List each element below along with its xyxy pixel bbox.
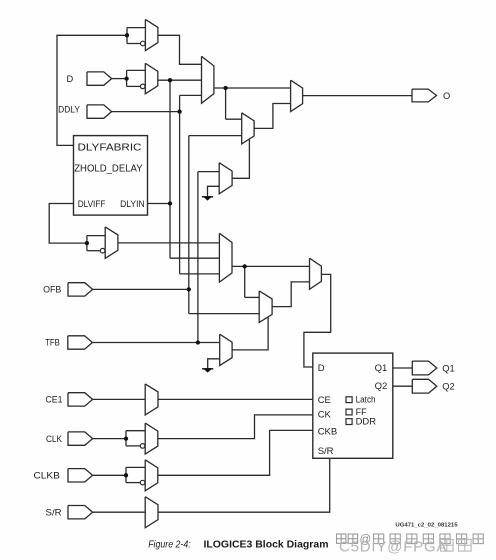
svg-text:DDR: DDR [356,416,377,426]
svg-text:OFB: OFB [43,285,61,295]
svg-text:Figure 2-4:: Figure 2-4: [148,539,191,550]
svg-text:C5DIY@FPGA: C5DIY@FPGA [339,539,447,556]
svg-text:CLKB: CLKB [34,471,60,481]
svg-text:CE1: CE1 [46,395,63,405]
svg-text:Latch: Latch [356,395,376,405]
svg-text:ZHOLD_DELAY: ZHOLD_DELAY [74,163,142,174]
svg-text:CLK: CLK [46,434,63,444]
svg-text:D: D [67,74,74,84]
svg-text:DLVIFF: DLVIFF [78,199,106,210]
svg-text:DLYIN: DLYIN [120,199,145,210]
svg-text:DDLY: DDLY [58,104,80,114]
svg-text:Q2: Q2 [442,382,454,392]
svg-text:FF: FF [356,407,367,417]
svg-text:S/R: S/R [318,446,334,457]
svg-text:O: O [443,91,450,101]
svg-text:Q2: Q2 [375,381,388,392]
svg-text:D: D [318,363,325,374]
svg-text:S/R: S/R [46,508,62,518]
svg-text:CKB: CKB [318,427,338,438]
svg-text:Q1: Q1 [442,363,454,373]
svg-text:UG471_c2_02_081215: UG471_c2_02_081215 [395,522,457,528]
svg-text:CK: CK [318,409,332,420]
svg-text:Q1: Q1 [375,363,388,374]
svg-text:CE: CE [318,395,331,406]
svg-text:DLYFABRIC: DLYFABRIC [78,142,143,153]
svg-text:ILOGICE3 Block Diagram: ILOGICE3 Block Diagram [204,539,329,550]
svg-text:TFB: TFB [45,338,60,348]
